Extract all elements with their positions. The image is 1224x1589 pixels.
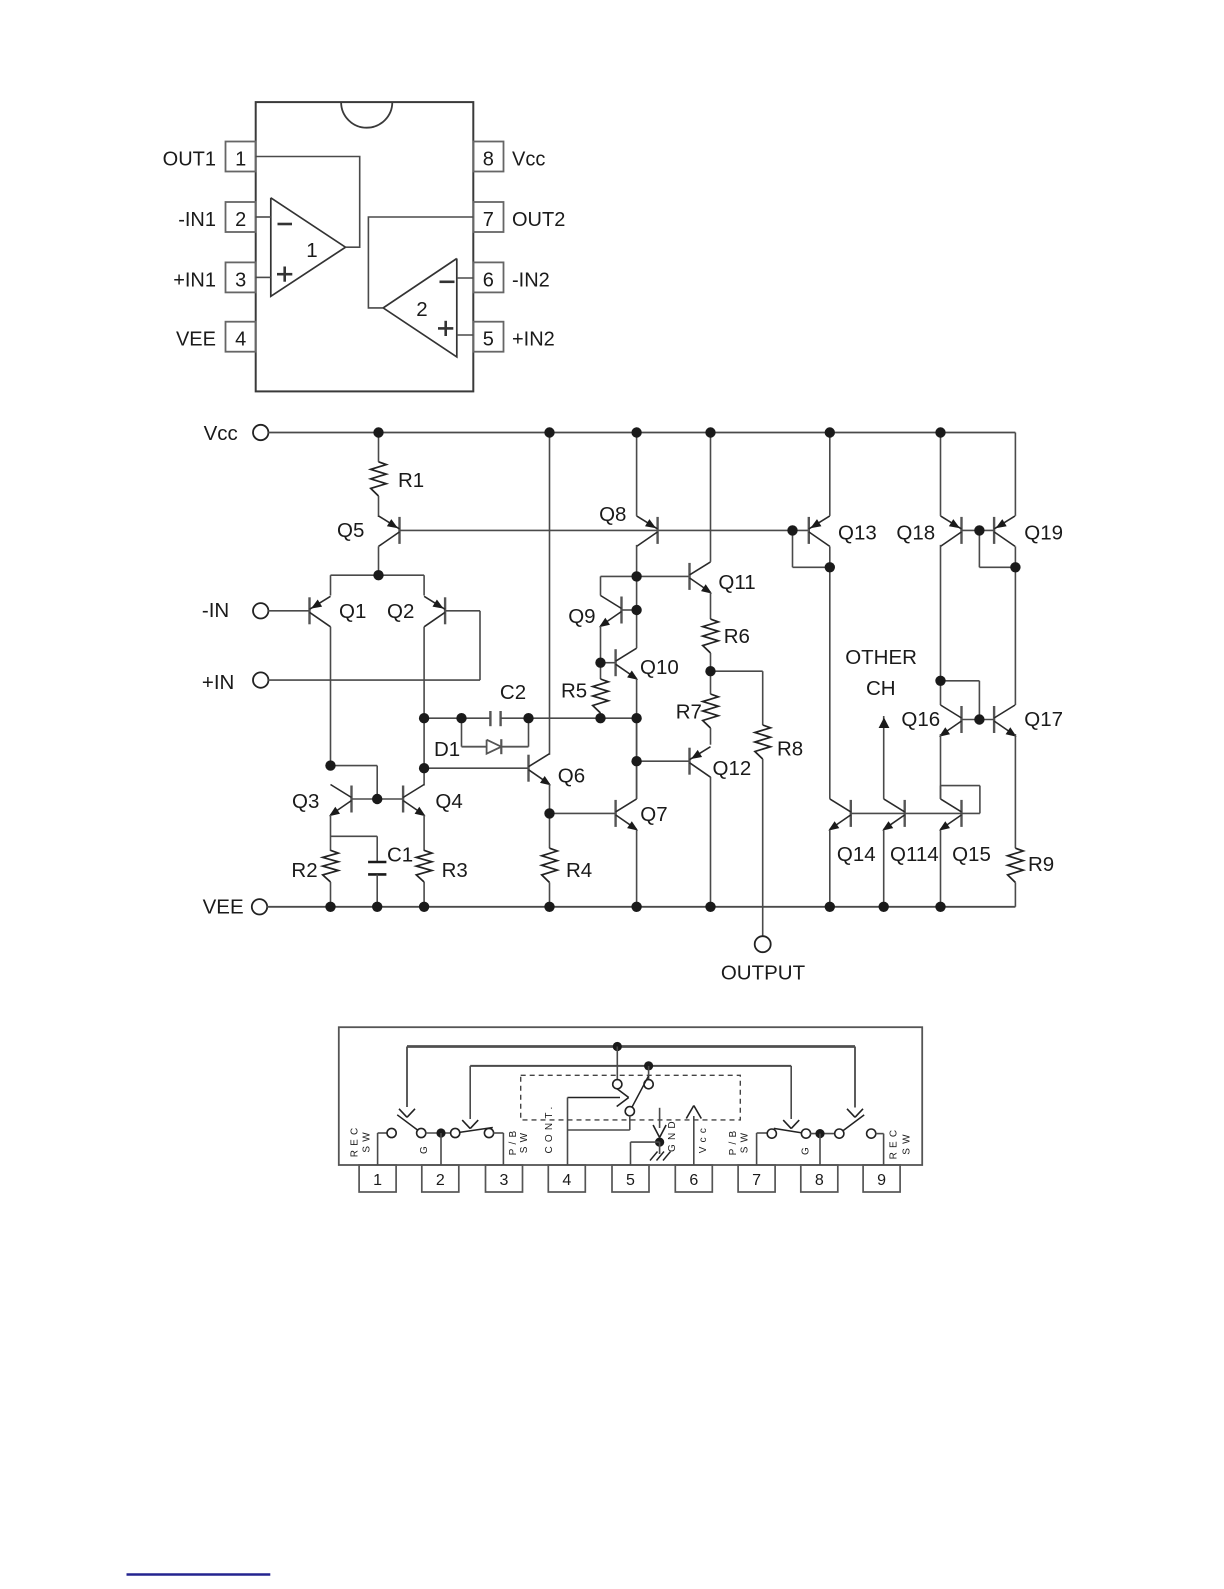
svg-text:SW: SW — [902, 1130, 913, 1155]
svg-text:REC: REC — [889, 1126, 900, 1160]
svg-text:SW: SW — [740, 1129, 751, 1154]
svg-text:P/B: P/B — [508, 1127, 519, 1156]
svg-text:G: G — [801, 1143, 812, 1155]
svg-text:4: 4 — [562, 1172, 571, 1189]
svg-text:Q7: Q7 — [640, 803, 667, 826]
svg-text:R2: R2 — [291, 859, 317, 882]
svg-text:+IN: +IN — [202, 671, 234, 694]
svg-text:Q16: Q16 — [901, 708, 940, 731]
svg-text:R6: R6 — [724, 625, 750, 648]
svg-text:Q10: Q10 — [640, 656, 679, 679]
svg-text:Q11: Q11 — [718, 571, 755, 594]
svg-text:Q12: Q12 — [713, 757, 752, 780]
svg-text:R5: R5 — [561, 680, 587, 703]
svg-text:REC: REC — [350, 1124, 361, 1158]
svg-text:SW: SW — [519, 1129, 530, 1154]
svg-text:Q114: Q114 — [890, 843, 939, 866]
svg-text:-IN2: -IN2 — [512, 269, 550, 291]
svg-text:Q17: Q17 — [1024, 708, 1063, 731]
svg-text:Vcc: Vcc — [512, 149, 545, 171]
svg-text:C1: C1 — [387, 844, 413, 867]
svg-text:5: 5 — [483, 329, 494, 351]
svg-text:R8: R8 — [777, 738, 803, 761]
svg-text:VEE: VEE — [203, 896, 244, 919]
svg-text:SW: SW — [362, 1128, 373, 1153]
svg-text:-IN: -IN — [202, 599, 229, 622]
svg-text:Q13: Q13 — [838, 522, 877, 545]
svg-text:9: 9 — [877, 1172, 886, 1189]
svg-text:+IN1: +IN1 — [173, 269, 216, 291]
svg-text:Q19: Q19 — [1024, 522, 1063, 545]
svg-text:Vcc: Vcc — [204, 422, 238, 445]
svg-text:R9: R9 — [1028, 853, 1054, 876]
svg-text:3: 3 — [235, 269, 246, 291]
svg-text:G: G — [419, 1142, 430, 1154]
svg-text:VEE: VEE — [176, 329, 216, 351]
svg-text:P/B: P/B — [728, 1127, 739, 1156]
svg-text:Q2: Q2 — [387, 600, 414, 623]
svg-text:Q15: Q15 — [952, 843, 991, 866]
svg-text:6: 6 — [689, 1172, 698, 1189]
svg-text:Vcc: Vcc — [698, 1124, 709, 1153]
svg-text:R4: R4 — [566, 859, 592, 882]
svg-text:Q9: Q9 — [568, 605, 595, 628]
svg-text:OUTPUT: OUTPUT — [721, 962, 806, 985]
svg-text:R3: R3 — [442, 859, 468, 882]
svg-text:1: 1 — [306, 239, 317, 262]
svg-text:6: 6 — [483, 269, 494, 291]
svg-text:Q18: Q18 — [896, 522, 935, 545]
svg-text:8: 8 — [815, 1172, 824, 1189]
svg-text:Q6: Q6 — [558, 765, 585, 788]
svg-text:Q3: Q3 — [292, 790, 319, 813]
svg-text:Q14: Q14 — [837, 843, 876, 866]
svg-text:GND: GND — [667, 1117, 678, 1152]
svg-text:R1: R1 — [398, 469, 424, 492]
svg-text:2: 2 — [436, 1172, 445, 1189]
svg-text:2: 2 — [235, 209, 246, 231]
svg-text:8: 8 — [483, 149, 494, 171]
svg-text:3: 3 — [500, 1172, 509, 1189]
svg-text:1: 1 — [235, 149, 246, 171]
svg-text:Q5: Q5 — [337, 519, 364, 542]
svg-text:7: 7 — [483, 209, 494, 231]
svg-text:Q8: Q8 — [599, 503, 626, 526]
svg-text:OTHER: OTHER — [845, 646, 917, 669]
svg-text:R7: R7 — [676, 701, 702, 724]
svg-text:OUT2: OUT2 — [512, 209, 565, 231]
svg-text:D1: D1 — [434, 738, 460, 761]
svg-text:-IN1: -IN1 — [178, 209, 216, 231]
svg-text:CONT.: CONT. — [544, 1103, 555, 1154]
svg-text:2: 2 — [416, 298, 427, 321]
svg-text:Q1: Q1 — [339, 600, 366, 623]
svg-text:4: 4 — [235, 329, 246, 351]
svg-text:1: 1 — [373, 1172, 382, 1189]
svg-text:C2: C2 — [500, 681, 526, 704]
svg-text:OUT1: OUT1 — [163, 149, 216, 171]
svg-text:5: 5 — [626, 1172, 635, 1189]
svg-text:Q4: Q4 — [435, 790, 462, 813]
svg-text:7: 7 — [752, 1172, 761, 1189]
svg-text:CH: CH — [866, 677, 896, 700]
svg-text:+IN2: +IN2 — [512, 329, 555, 351]
